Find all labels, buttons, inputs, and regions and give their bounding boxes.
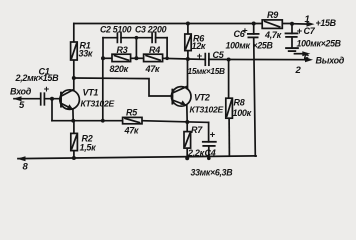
node base junction <box>50 97 54 101</box>
svg-text:R8: R8 <box>234 98 245 108</box>
node R7 ground <box>185 156 189 160</box>
resistor R6 <box>185 34 191 51</box>
wire C2/C3 cap row <box>103 37 117 39</box>
svg-text:+: + <box>197 51 203 62</box>
wire interstage VT1 collector to VT2 base <box>74 78 173 96</box>
svg-text:С7: С7 <box>304 26 316 36</box>
svg-text:VT2: VT2 <box>194 93 210 103</box>
wire R6 column / VT2 collector <box>187 24 189 35</box>
svg-text:47к: 47к <box>145 64 160 74</box>
svg-text:+15В: +15В <box>316 18 337 28</box>
capacitor C2 <box>117 33 121 42</box>
resistor R7 <box>184 132 191 149</box>
node R8 top <box>227 58 231 62</box>
svg-text:100к: 100к <box>233 108 252 118</box>
wire R2 column <box>73 121 75 134</box>
svg-text:+: + <box>210 130 216 141</box>
svg-text:С3 2200: С3 2200 <box>135 25 167 35</box>
node C6 top rail <box>252 22 256 26</box>
transistor VT1 <box>60 90 80 110</box>
wire network verticals <box>102 38 104 59</box>
node R3 left <box>101 56 105 60</box>
node VT1 collector junction <box>72 76 76 80</box>
svg-text:8: 8 <box>23 162 29 173</box>
capacitor C1 <box>41 93 45 105</box>
input arrow <box>13 96 22 101</box>
resistor R2 <box>71 133 78 150</box>
node cap row middle <box>135 36 139 40</box>
wire R8 column <box>228 60 230 99</box>
wire C5 row and output <box>188 58 205 60</box>
node R3/R4 middle <box>134 56 138 60</box>
ground rail arrow pin 8 <box>17 156 26 161</box>
node VT2 emitter junction <box>185 120 189 124</box>
svg-text:1: 1 <box>305 14 310 25</box>
node R2 ground <box>72 156 76 160</box>
capacitor C5 <box>205 54 209 66</box>
wire C1 to VT1 base <box>44 98 60 100</box>
pin 6 arrow <box>295 51 311 56</box>
svg-text:КТ3102Е: КТ3102Е <box>81 99 115 109</box>
wire VT2 emitter column <box>186 105 188 122</box>
svg-text:VT1: VT1 <box>83 88 99 98</box>
svg-text:2,2мк×15В: 2,2мк×15В <box>15 73 60 83</box>
node VT1 emitter junction <box>71 119 75 123</box>
node R6 top rail <box>186 22 190 26</box>
svg-text:47к: 47к <box>124 126 139 136</box>
svg-text:5: 5 <box>19 100 25 111</box>
node 1 +15V arrow <box>292 22 315 27</box>
wire top supply rail <box>74 23 292 25</box>
transistor VT2 <box>171 86 191 106</box>
wire input line <box>14 98 41 100</box>
wire feedback emitter line <box>52 120 123 122</box>
resistor R4 <box>144 54 163 61</box>
node C4 ground <box>207 157 211 161</box>
svg-text:Вход: Вход <box>10 87 32 97</box>
svg-text:33к: 33к <box>79 49 93 59</box>
svg-text:С5: С5 <box>213 50 225 60</box>
svg-text:100мк: 100мк <box>226 40 251 50</box>
resistor R9 <box>262 20 282 29</box>
svg-text:+: + <box>242 26 248 37</box>
svg-text:Выход: Выход <box>316 56 345 66</box>
svg-text:R3: R3 <box>117 45 128 55</box>
capacitor C3 <box>152 33 156 42</box>
svg-text:С4: С4 <box>205 148 216 158</box>
svg-text:2,2к: 2,2к <box>187 148 205 158</box>
node R4 right <box>165 57 169 61</box>
resistor R3 <box>112 54 131 61</box>
wire R3/R4 resistor row <box>103 57 112 59</box>
resistor R8 <box>226 98 233 118</box>
svg-text:1,5к: 1,5к <box>80 143 97 153</box>
svg-text:×25В: ×25В <box>253 40 274 50</box>
capacitor C7 <box>286 33 298 37</box>
capacitor C4 <box>203 142 216 146</box>
svg-text:КТ3102Е: КТ3102Е <box>190 105 224 115</box>
svg-text:R4: R4 <box>149 45 160 55</box>
capacitor C6 <box>248 34 259 38</box>
svg-text:R7: R7 <box>191 125 203 135</box>
wire C4 bottom <box>208 146 210 159</box>
svg-text:R9: R9 <box>267 10 278 20</box>
svg-text:15мк×15В: 15мк×15В <box>188 66 226 76</box>
output arrow node 2 <box>305 57 313 62</box>
svg-text:12к: 12к <box>192 41 206 51</box>
svg-text:С2 5100: С2 5100 <box>100 25 132 35</box>
wire C6 column <box>253 24 255 34</box>
wire ground rail <box>18 156 256 159</box>
svg-text:820к: 820к <box>110 64 129 74</box>
wire VT1 emitter column <box>72 109 74 121</box>
wire R7 column <box>186 122 188 132</box>
node VT2 collector <box>186 57 190 61</box>
resistor R5 <box>123 117 142 123</box>
resistor R1 <box>71 42 78 60</box>
svg-text:33мк×6,3В: 33мк×6,3В <box>191 168 234 178</box>
svg-text:+: + <box>297 26 303 37</box>
junction top rail / R1 <box>73 23 75 25</box>
node R3 drop junction <box>101 119 105 123</box>
svg-text:2: 2 <box>295 65 302 76</box>
node C7 top rail <box>290 22 294 26</box>
wire R3 drop to feedback line <box>102 58 104 120</box>
wire C7 column <box>291 24 293 34</box>
wire C4 top branch <box>208 122 210 141</box>
svg-text:4,7к: 4,7к <box>264 30 282 40</box>
wire base drop <box>51 99 53 121</box>
svg-text:100мк×25В: 100мк×25В <box>297 39 342 49</box>
ground symbol under C7 <box>286 48 298 51</box>
svg-text:R5: R5 <box>126 108 138 118</box>
wire R1 column <box>73 24 75 43</box>
svg-text:+: + <box>44 84 50 95</box>
